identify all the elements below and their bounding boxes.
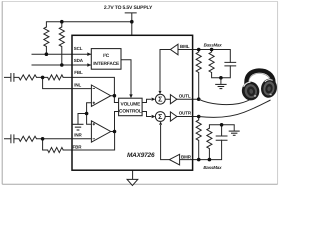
svg-text:INR: INR bbox=[74, 132, 82, 137]
svg-text:Σ: Σ bbox=[158, 96, 163, 104]
svg-text:FBR: FBR bbox=[73, 144, 83, 149]
svg-text:CONTROL: CONTROL bbox=[119, 108, 142, 114]
svg-text:I²C: I²C bbox=[103, 53, 110, 59]
svg-text:2.7V TO 5.5V SUPPLY: 2.7V TO 5.5V SUPPLY bbox=[104, 5, 153, 11]
svg-text:BML: BML bbox=[180, 44, 190, 49]
svg-text:FBL: FBL bbox=[74, 70, 83, 75]
svg-text:SCL: SCL bbox=[74, 46, 83, 51]
svg-text:BMR: BMR bbox=[181, 154, 192, 159]
svg-text:BassMax: BassMax bbox=[203, 165, 222, 170]
svg-text:INL: INL bbox=[74, 82, 81, 87]
svg-text:Σ: Σ bbox=[158, 113, 163, 121]
svg-text:MAX9726: MAX9726 bbox=[127, 152, 155, 159]
svg-text:VOLUME: VOLUME bbox=[121, 102, 142, 108]
svg-text:SDA: SDA bbox=[74, 58, 84, 63]
svg-text:INTERFACE: INTERFACE bbox=[93, 61, 120, 67]
svg-text:BassMax: BassMax bbox=[204, 42, 223, 47]
svg-text:OUTL: OUTL bbox=[179, 94, 191, 99]
svg-text:OUTR: OUTR bbox=[179, 111, 192, 116]
